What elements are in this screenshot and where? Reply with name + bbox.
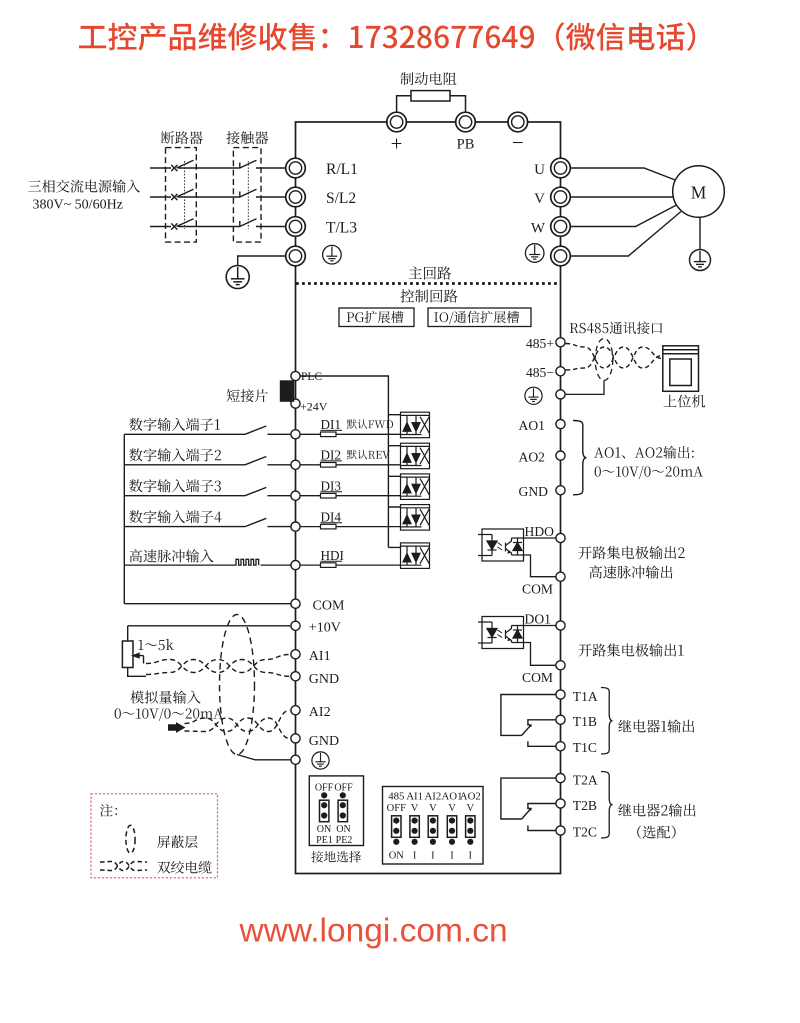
svg-text:www.longi.com.cn: www.longi.com.cn [239, 913, 508, 950]
resistor DI3 [300, 495, 400, 497]
svg-text:I: I [450, 851, 454, 862]
label 主回路 [409, 266, 452, 279]
jumper pin dot [321, 792, 327, 798]
arrow analog input [168, 722, 186, 733]
svg-text:COM: COM [313, 599, 345, 614]
wire shield drain [237, 755, 291, 760]
svg-text:T2C: T2C [573, 825, 597, 840]
label 短接片 [227, 389, 268, 402]
svg-text:AI2: AI2 [309, 705, 331, 720]
svg-text:DI2: DI2 [321, 448, 342, 463]
terminal DI2 [291, 460, 300, 469]
RS485 cable (twisted pair) [566, 344, 662, 371]
terminal HDI [291, 561, 300, 570]
svg-text:COM: COM [522, 670, 553, 685]
wire +10V [128, 625, 291, 627]
ground symbol (inverter right) [525, 244, 544, 263]
terminal T1B [556, 715, 565, 724]
svg-text:GND: GND [519, 484, 549, 499]
svg-text:I: I [413, 851, 417, 862]
shield symbol (legend) [126, 825, 135, 853]
AI2/GND cable (twisted pair) [185, 710, 290, 738]
wire RS485 shield drain [556, 381, 604, 395]
terminal PB [456, 112, 476, 132]
ground symbol (analog shield) [312, 752, 329, 769]
switch DI4 [124, 518, 291, 526]
svg-text:W: W [531, 221, 546, 237]
shorting jumper 短接片 (black) [280, 380, 295, 402]
breaker linkage (dotted) [184, 161, 186, 229]
breaker pole R [171, 160, 193, 171]
svg-text:V: V [448, 803, 456, 814]
jumper pin dot [340, 792, 346, 798]
wire phase R input [150, 167, 286, 169]
terminal + [387, 112, 407, 132]
svg-text:AI1: AI1 [406, 791, 423, 803]
terminal DI4 [291, 522, 300, 531]
svg-text:+: + [391, 132, 403, 156]
svg-text:OFF: OFF [315, 783, 334, 794]
terminal T2A [556, 774, 565, 783]
svg-text:COM: COM [522, 582, 553, 597]
svg-text:ON: ON [317, 824, 331, 835]
label 注： [100, 804, 117, 817]
terminal - [508, 112, 528, 132]
motor M [673, 166, 725, 218]
svg-text:+10V: +10V [309, 620, 341, 635]
svg-text:ON: ON [336, 824, 350, 835]
terminal W [551, 217, 571, 237]
jumper block [320, 800, 329, 822]
svg-text:OFF: OFF [387, 803, 406, 814]
optocoupler U-DI3 [401, 474, 430, 500]
resistor DI4 [300, 526, 400, 528]
brace relay2 group [601, 772, 613, 839]
svg-text:I: I [431, 851, 435, 862]
terminal 485- [556, 367, 565, 376]
wire HDO [524, 537, 556, 539]
braking resistor label 制动电阻 [401, 72, 457, 85]
grounding select box PE1/PE2 [309, 776, 363, 846]
input label 高速脉冲输入 [130, 549, 214, 562]
svg-text:T2A: T2A [573, 773, 598, 788]
note box (red dashed) [91, 794, 218, 878]
label 默认REV [347, 450, 390, 460]
optocoupler U-HDI [401, 543, 430, 569]
svg-text:380V~ 50/60Hz: 380V~ 50/60Hz [33, 198, 123, 213]
IO expansion slot box [428, 308, 531, 327]
jumper block [410, 816, 419, 838]
terminal T1A [556, 690, 565, 699]
terminal PE output [551, 246, 571, 266]
wire U to motor [570, 168, 676, 181]
svg-text:DI1: DI1 [321, 417, 342, 432]
ground symbol (inverter left) [323, 245, 342, 264]
label 默认FWD [347, 419, 393, 429]
ground symbol (485) [525, 387, 542, 404]
wire W to motor [570, 205, 677, 227]
label 接地选择 [311, 851, 361, 863]
separator main/control (dotted) [296, 282, 560, 285]
cable shield (dashed ellipse) [220, 615, 255, 755]
contactor dashed box [233, 148, 261, 243]
terminal DO1 [556, 621, 565, 630]
svg-text:T1B: T1B [573, 714, 597, 729]
terminal COM (DO1) [556, 661, 565, 670]
svg-text:T2B: T2B [573, 798, 597, 813]
resistor DI1 [300, 433, 400, 435]
label 屏蔽层 [157, 835, 197, 848]
jumper block [338, 800, 347, 822]
terminal T/L3 [286, 217, 306, 237]
contactor pole S [240, 189, 257, 197]
terminal T2B [556, 799, 565, 808]
resistor DI2 [300, 464, 400, 466]
svg-text:T1A: T1A [573, 689, 598, 704]
relay T2 contact [501, 778, 556, 830]
contactor linkage (dotted) [247, 161, 249, 229]
svg-text:AO2: AO2 [460, 791, 481, 803]
svg-text:485+: 485+ [526, 336, 554, 351]
svg-text:AI2: AI2 [425, 791, 442, 803]
svg-text:V: V [429, 803, 437, 814]
wire PE to motor [570, 212, 681, 257]
label AO1、AO2输出： [594, 446, 694, 459]
terminal AI1 [291, 650, 300, 659]
terminal PE (shield) [291, 755, 300, 764]
svg-text:PE2: PE2 [336, 835, 353, 846]
ground (input side) [226, 266, 249, 289]
svg-text:I: I [469, 851, 473, 862]
pulse waveform glyph [124, 559, 291, 565]
jumper block [466, 816, 475, 838]
label 高速脉冲输出 [589, 565, 672, 578]
legend (twisted pair) [100, 862, 147, 871]
svg-text:DI4: DI4 [321, 509, 342, 524]
input label 数字输入端子2 [129, 448, 221, 461]
terminal PE input [286, 246, 306, 266]
label 开路集电极输出2 [579, 546, 685, 559]
switch DI1 [124, 426, 291, 434]
terminal PE (485) [556, 390, 565, 399]
svg-text:V: V [534, 191, 545, 207]
svg-text:HDO: HDO [525, 524, 555, 539]
svg-text:T1C: T1C [573, 740, 597, 755]
RS485 shield (dashed ellipse) [595, 339, 613, 381]
terminal GND2 [291, 734, 300, 743]
switch DI2 [124, 457, 291, 465]
jumper pin dot [467, 839, 473, 845]
inverter main box [296, 122, 561, 874]
wire V to motor [570, 196, 673, 198]
svg-text:PLC: PLC [301, 371, 322, 383]
svg-text:+24V: +24V [300, 400, 328, 414]
jumper block [428, 816, 437, 838]
terminal HDO [556, 533, 565, 542]
analog range label [115, 708, 223, 721]
svg-text:AI1: AI1 [309, 649, 331, 664]
input label 数字输入端子3 [129, 479, 221, 492]
svg-text:GND: GND [309, 672, 339, 687]
jumper pin dot [449, 839, 455, 845]
terminal DI1 [291, 430, 300, 439]
svg-text:DO1: DO1 [525, 612, 551, 627]
svg-text:485: 485 [388, 791, 404, 803]
terminal GND [291, 672, 300, 681]
brace AO output group [573, 421, 587, 495]
wire PLC bus [300, 376, 400, 547]
breaker pole T [171, 219, 193, 230]
label 上位机 [664, 395, 706, 408]
svg-text:V: V [411, 803, 419, 814]
svg-text:PB: PB [457, 137, 475, 153]
wire phase T input [150, 226, 286, 228]
svg-text:AO2: AO2 [519, 450, 546, 465]
svg-text:R/L1: R/L1 [326, 161, 358, 178]
terminal COM [291, 599, 300, 608]
optocoupler U-DI2 [401, 443, 430, 469]
terminal PLC [291, 371, 300, 380]
jumper pin dot [430, 839, 436, 845]
terminal GND (AO) [556, 486, 565, 495]
contactor label 接触器 [226, 131, 268, 144]
wire + to braking resistor to PB [397, 96, 466, 112]
svg-text:T/L3: T/L3 [326, 220, 357, 237]
terminal AO2 [556, 451, 565, 460]
svg-text:OFF: OFF [334, 783, 353, 794]
V/I select box [383, 787, 484, 865]
AI1/GND cable (twisted pair) [146, 655, 290, 677]
relay T1 contact [501, 695, 556, 747]
jumper block [392, 816, 401, 838]
resistor HDI [300, 564, 400, 566]
terminal +10V [291, 621, 300, 630]
svg-text:485−: 485− [526, 365, 554, 380]
wire motor to ground [699, 217, 701, 250]
circuit breaker dashed box [166, 148, 197, 243]
optocoupler U-DI4 [401, 505, 430, 530]
terminal S/L2 [286, 187, 306, 207]
svg-text:S/L2: S/L2 [326, 190, 356, 207]
label AO output range [595, 466, 703, 479]
label 开路集电极输出1 [579, 644, 684, 657]
wire DO1 emitter to COM [524, 643, 556, 666]
wire COM [124, 603, 291, 605]
wire HDO emitter to COM [524, 555, 556, 577]
wire digital input common bus (left) [123, 434, 125, 603]
terminal T2C [556, 826, 565, 835]
svg-text:AO1: AO1 [519, 418, 545, 433]
svg-text:V: V [467, 803, 475, 814]
terminal AO1 [556, 420, 565, 429]
label 继电器2输出 [618, 804, 695, 817]
braking resistor body [411, 91, 450, 101]
terminal V [551, 187, 571, 207]
breaker pole S [171, 189, 193, 200]
circuit breaker label 断路器 [161, 131, 202, 144]
svg-text:M: M [691, 183, 707, 203]
terminal R/L1 [286, 158, 306, 178]
svg-text:PE1: PE1 [316, 835, 333, 846]
label 控制回路 [400, 289, 457, 302]
input label 数字输入端子1 [129, 418, 220, 431]
terminal 485+ [556, 338, 565, 347]
label 双绞电缆 [157, 861, 211, 874]
jumper block [447, 816, 456, 838]
optocoupler U-DO1 [478, 617, 524, 649]
switch DI3 [124, 487, 291, 495]
label 1~5k [139, 639, 174, 650]
label 继电器1输出 [618, 720, 694, 733]
optocoupler U-DI1 [401, 412, 430, 438]
wire DO1 [524, 625, 556, 627]
ground (motor) [690, 250, 711, 271]
PG expansion slot box [339, 308, 414, 327]
terminal AI2 [291, 706, 300, 715]
svg-text:DI3: DI3 [321, 478, 342, 493]
svg-text:U: U [534, 162, 545, 178]
svg-text:ON: ON [389, 851, 405, 862]
terminal +24V [291, 399, 300, 408]
input label 数字输入端子4 [129, 510, 221, 523]
host computer box 上位机 [663, 346, 699, 392]
terminal T1C [556, 742, 565, 751]
terminal DI3 [291, 491, 300, 500]
label （选配） [637, 826, 675, 839]
contactor pole T [240, 219, 257, 227]
svg-text:GND: GND [309, 734, 339, 749]
source label 三相交流电源输入 [28, 180, 140, 193]
label RS485通讯接口 [570, 322, 663, 335]
analog input label 模拟量输入 [130, 691, 200, 704]
brace relay1 group [601, 688, 613, 755]
wire input ground [238, 256, 286, 266]
optocoupler U-HDO [478, 529, 524, 561]
potentiometer 1~5k [122, 626, 146, 677]
jumper pin dot [412, 839, 418, 845]
wire phase S input [150, 196, 286, 198]
svg-text:−: − [512, 131, 524, 155]
page title (red) [79, 22, 695, 51]
terminal U [551, 158, 571, 178]
svg-text:HDI: HDI [321, 548, 344, 563]
contactor pole R [240, 160, 257, 168]
terminal COM (HDO) [556, 572, 565, 581]
jumper pin dot [393, 839, 399, 845]
